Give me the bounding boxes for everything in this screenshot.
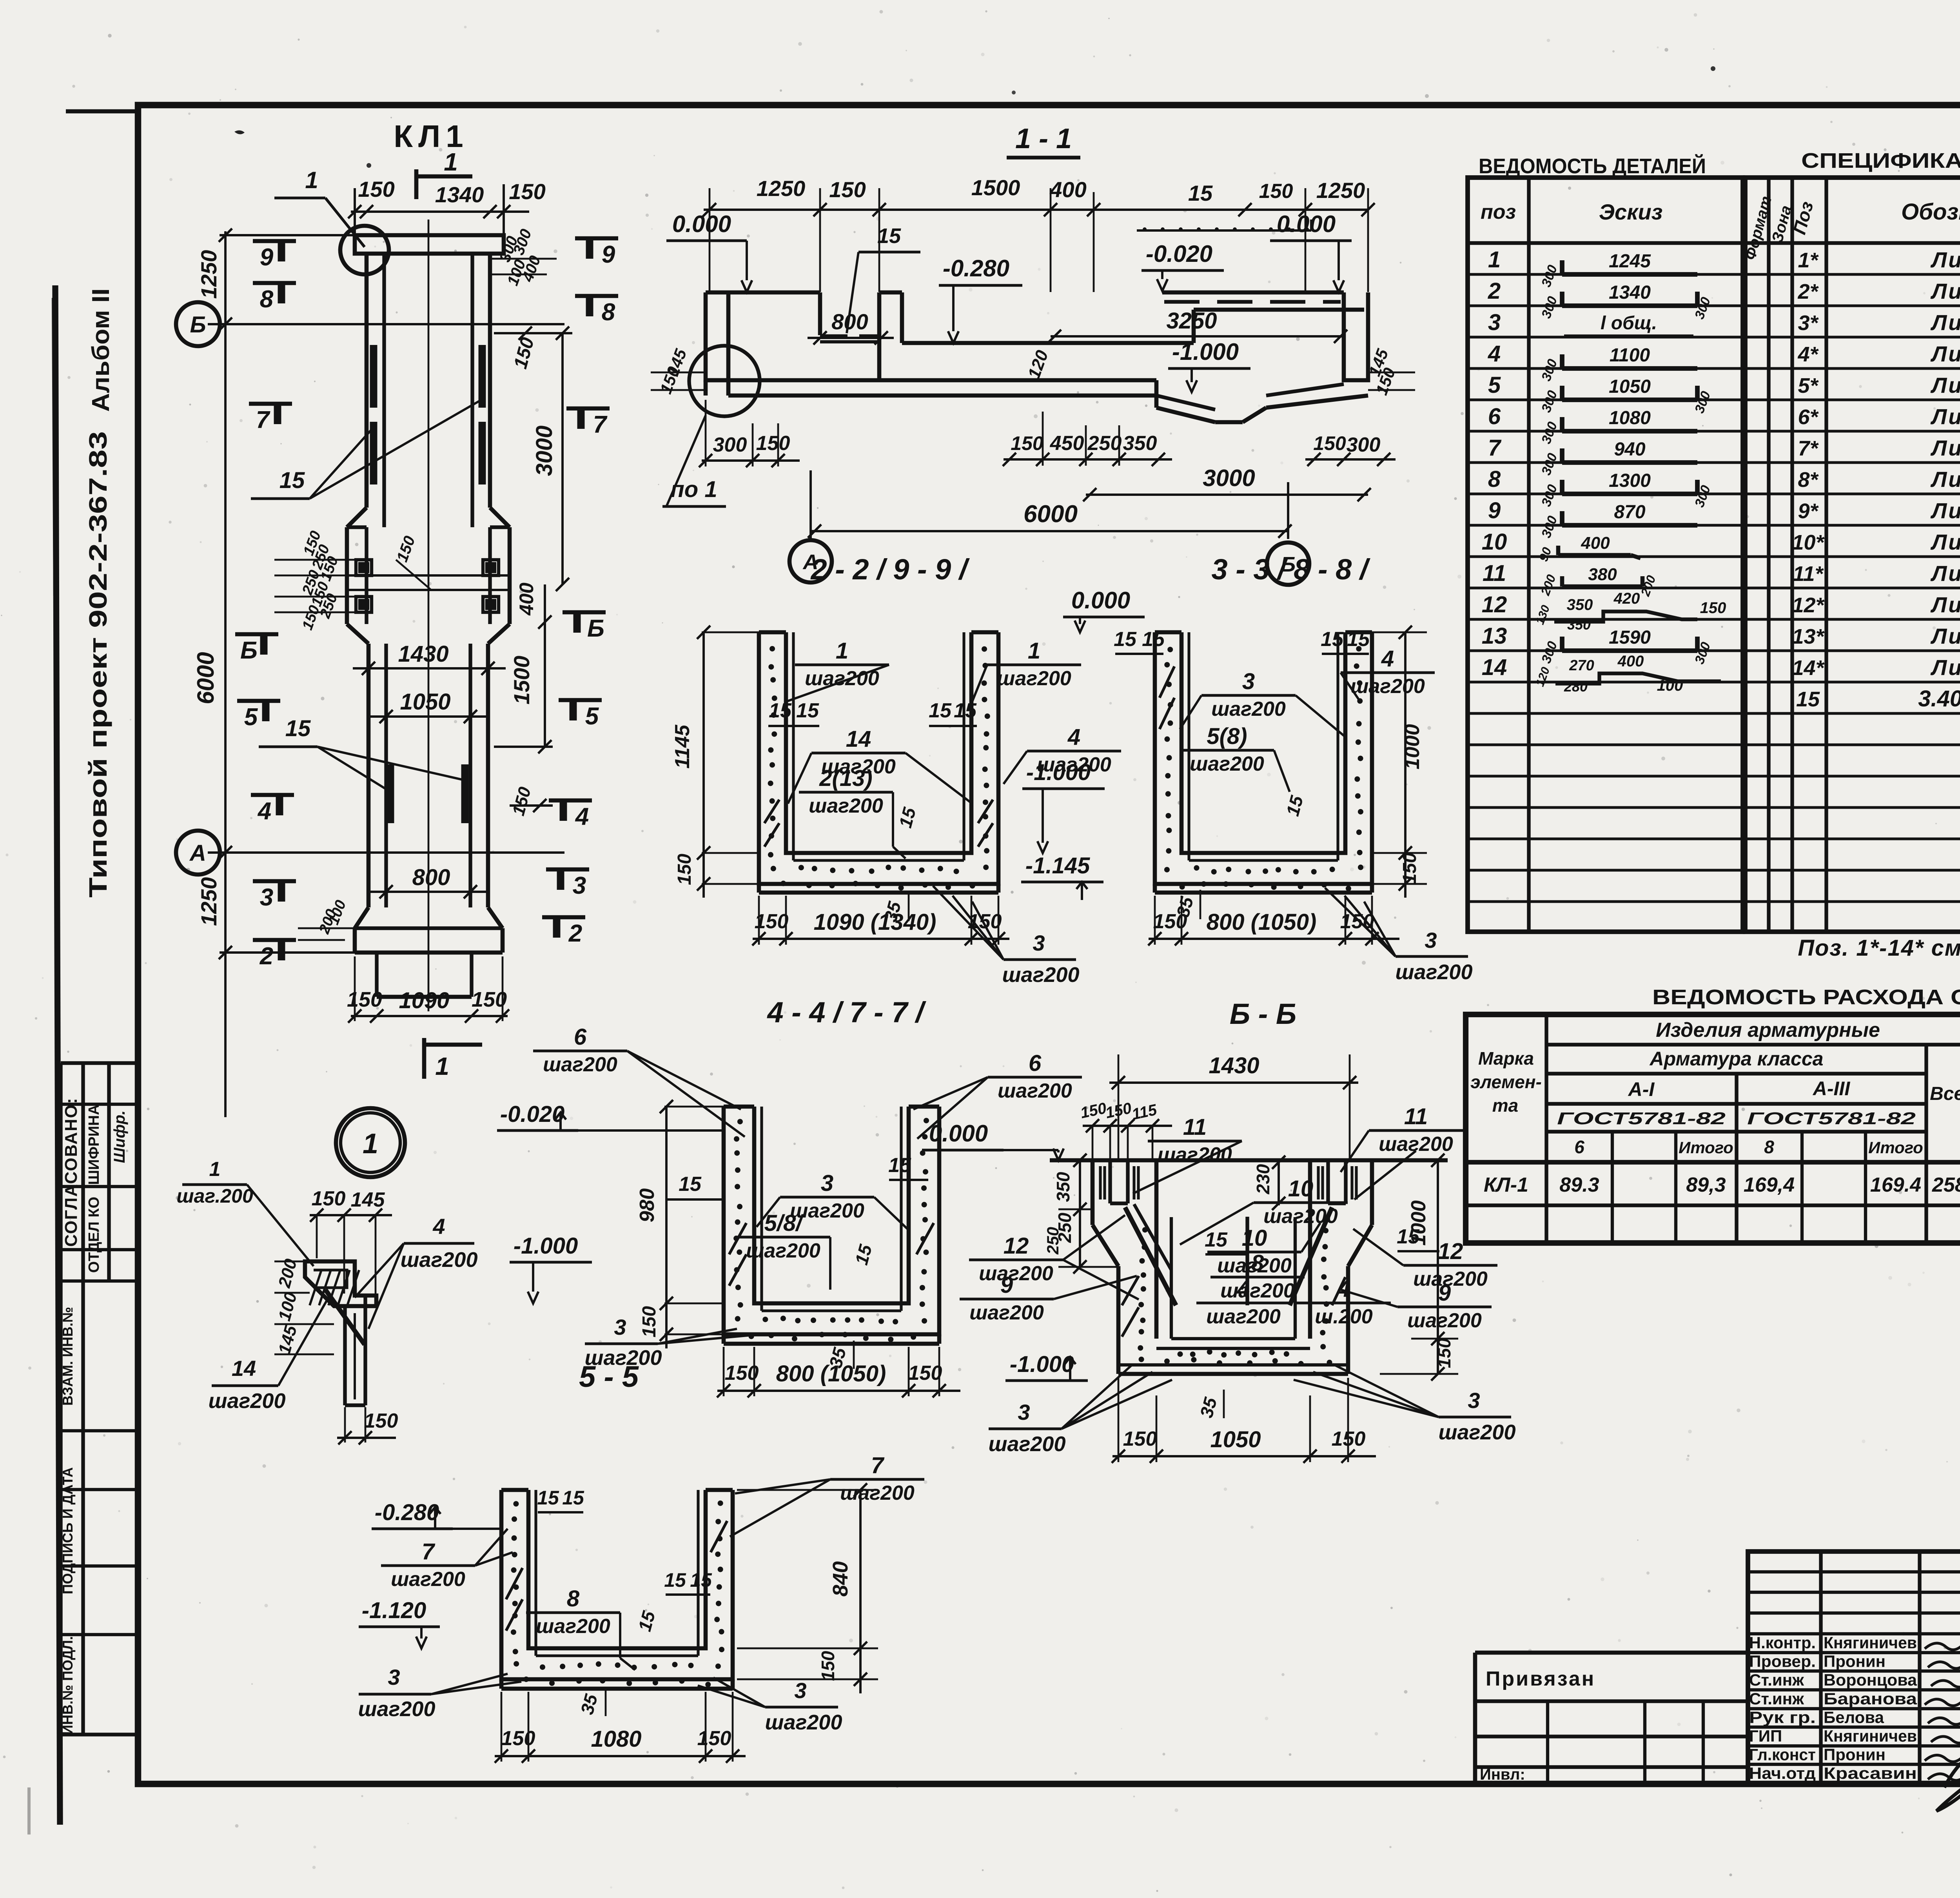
plan bottom section flag 1 <box>422 1038 426 1079</box>
svg-text:Баранова: Баранова <box>1824 1689 1917 1708</box>
plan wide box inner lines <box>347 574 510 577</box>
section 1-1 main outline <box>706 292 728 380</box>
svg-text:150: 150 <box>501 1727 535 1750</box>
svg-text:400: 400 <box>515 582 537 616</box>
section Б-Б vertical bar leg <box>1245 1217 1249 1305</box>
svg-text:1245: 1245 <box>1609 251 1651 272</box>
plan outline: bottom flange <box>355 907 368 928</box>
svg-text:Лист 4: Лист 4 <box>1930 435 1960 460</box>
svg-text:Княгиничев: Княгиничев <box>1824 1633 1917 1652</box>
svg-text:4 - 4 / 7 - 7 /: 4 - 4 / 7 - 7 / <box>767 996 927 1029</box>
svg-text:15: 15 <box>1114 628 1137 651</box>
svg-text:КЛ-1: КЛ-1 <box>1484 1174 1528 1196</box>
svg-text:150: 150 <box>697 1727 731 1750</box>
plan outline: upper neck walls <box>365 254 369 508</box>
svg-text:7*: 7* <box>1798 437 1819 460</box>
svg-text:169,4: 169,4 <box>1744 1174 1795 1196</box>
svg-text:1: 1 <box>209 1158 221 1181</box>
svg-text:169.4: 169.4 <box>1870 1174 1921 1196</box>
svg-text:13*: 13* <box>1792 625 1825 648</box>
svg-text:4*: 4* <box>1797 343 1819 366</box>
svg-text:940: 940 <box>1614 439 1645 460</box>
node detail hatch <box>310 1270 321 1305</box>
svg-text:3000: 3000 <box>532 425 557 476</box>
svg-text:15: 15 <box>877 224 901 248</box>
svg-text:3 - 3 / 8 - 8 /: 3 - 3 / 8 - 8 / <box>1212 553 1371 586</box>
svg-text:Арматура класса: Арматура класса <box>1649 1048 1824 1070</box>
svg-text:1050: 1050 <box>1609 376 1651 397</box>
plan embed squares <box>356 560 372 575</box>
svg-text:300: 300 <box>713 434 747 456</box>
svg-text:14*: 14* <box>1792 656 1825 680</box>
svg-text:СОГЛАСОВАНО:: СОГЛАСОВАНО: <box>62 1097 81 1247</box>
svg-text:Лист 4: Лист 4 <box>1930 279 1960 303</box>
left margin approval table <box>61 1061 138 1065</box>
svg-text:шаг200: шаг200 <box>1407 1309 1482 1332</box>
svg-text:15: 15 <box>796 699 819 722</box>
svg-text:4: 4 <box>1488 341 1501 367</box>
svg-text:9: 9 <box>1488 498 1501 523</box>
privyazan block <box>1475 1651 1748 1655</box>
svg-text:350: 350 <box>1567 617 1591 633</box>
svg-text:шаг200: шаг200 <box>1211 698 1286 720</box>
svg-text:2*: 2* <box>1797 280 1819 303</box>
svg-text:6: 6 <box>1574 1137 1584 1157</box>
section 4-4 outline <box>724 1107 939 1334</box>
svg-text:Белова: Белова <box>1824 1708 1884 1726</box>
section 5-5 hatch <box>506 1568 523 1599</box>
svg-text:1430: 1430 <box>1209 1053 1259 1078</box>
svg-text:5*: 5* <box>1798 374 1819 397</box>
svg-text:Обозначение: Обозначение <box>1901 199 1960 225</box>
svg-text:1590: 1590 <box>1609 627 1651 648</box>
section Б-Б bent bar diagonals <box>1125 1207 1176 1305</box>
svg-text:шаг200: шаг200 <box>1002 963 1080 987</box>
svg-text:Лист 4: Лист 4 <box>1930 655 1960 680</box>
svg-text:элемен-: элемен- <box>1470 1072 1542 1092</box>
svg-text:6: 6 <box>1029 1051 1042 1076</box>
svg-text:14: 14 <box>232 1356 256 1381</box>
svg-text:15: 15 <box>888 1154 911 1177</box>
svg-text:270: 270 <box>1569 657 1594 674</box>
svg-text:400: 400 <box>1049 177 1086 202</box>
svg-text:7: 7 <box>422 1539 436 1564</box>
svg-text:150: 150 <box>829 177 866 202</box>
svg-text:1430: 1430 <box>398 641 448 667</box>
svg-text:Всего: Всего <box>1930 1083 1960 1104</box>
plan axis line А <box>208 851 564 854</box>
svg-text:шаг200: шаг200 <box>1439 1421 1516 1444</box>
svg-text:150: 150 <box>674 854 695 885</box>
svg-text:Шифр.: Шифр. <box>111 1110 128 1163</box>
svg-text:l общ.: l общ. <box>1601 313 1657 334</box>
svg-text:0.000: 0.000 <box>1071 587 1130 613</box>
svg-text:2: 2 <box>568 920 582 947</box>
svg-text:3*: 3* <box>1798 311 1819 335</box>
svg-text:Воронцова: Воронцова <box>1824 1671 1917 1689</box>
svg-text:4: 4 <box>1381 646 1394 671</box>
scan smudges <box>234 130 245 134</box>
svg-text:ШИФРИНА: ШИФРИНА <box>86 1104 102 1185</box>
svg-text:Изделия арматурные: Изделия арматурные <box>1656 1019 1880 1042</box>
svg-text:Б: Б <box>587 615 604 642</box>
svg-text:7: 7 <box>593 411 608 438</box>
svg-text:Пронин: Пронин <box>1824 1652 1886 1671</box>
svg-text:Н.контр.: Н.контр. <box>1749 1633 1816 1652</box>
svg-text:150: 150 <box>639 1306 660 1337</box>
svg-text:1080: 1080 <box>1609 408 1651 428</box>
svg-text:6000: 6000 <box>192 652 219 704</box>
plan wall rebar strips upper <box>370 345 377 496</box>
svg-text:шаг200: шаг200 <box>997 667 1071 690</box>
svg-text:шаг200: шаг200 <box>1206 1305 1281 1328</box>
svg-text:250: 250 <box>1044 1227 1062 1255</box>
svg-text:-1.120: -1.120 <box>362 1598 426 1623</box>
svg-text:шаг200: шаг200 <box>746 1239 820 1262</box>
svg-text:Нач.отд: Нач.отд <box>1749 1764 1816 1782</box>
svg-text:5: 5 <box>244 704 258 731</box>
svg-text:3: 3 <box>614 1315 626 1339</box>
svg-text:ВЗАМ. ИНВ.№: ВЗАМ. ИНВ.№ <box>60 1307 76 1406</box>
svg-text:12: 12 <box>1438 1239 1463 1264</box>
svg-text:1250: 1250 <box>757 176 806 201</box>
svg-text:3.400- 6/76: 3.400- 6/76 <box>1918 686 1960 711</box>
section Б-Б outline <box>1050 1158 1448 1163</box>
svg-text:15: 15 <box>1796 688 1820 711</box>
svg-text:Лист 4: Лист 4 <box>1930 404 1960 429</box>
svg-text:350: 350 <box>1123 432 1157 455</box>
plan outline: wide box <box>345 527 349 624</box>
svg-text:Княгиничев: Княгиничев <box>1824 1727 1917 1745</box>
svg-text:14: 14 <box>1482 655 1507 680</box>
svg-text:8: 8 <box>567 1586 580 1611</box>
svg-text:15: 15 <box>1321 628 1344 651</box>
svg-text:1500: 1500 <box>509 656 534 705</box>
svg-text:10: 10 <box>1242 1225 1267 1251</box>
svg-text:ВЕДОМОСТЬ ДЕТАЛЕЙ: ВЕДОМОСТЬ ДЕТАЛЕЙ <box>1479 154 1706 178</box>
svg-text:Лист 4: Лист 4 <box>1930 247 1960 272</box>
svg-text:-1.000: -1.000 <box>1010 1352 1074 1377</box>
svg-text:Лист 4: Лист 4 <box>1930 624 1960 648</box>
plan section markers left column <box>253 239 296 243</box>
svg-text:2: 2 <box>1488 278 1501 304</box>
plan section flag 1 top <box>414 169 419 199</box>
svg-text:шаг200: шаг200 <box>989 1432 1066 1456</box>
svg-text:шаг200: шаг200 <box>543 1053 617 1076</box>
svg-text:поз: поз <box>1481 201 1516 223</box>
svg-text:15: 15 <box>1397 1225 1420 1248</box>
svg-text:89.3: 89.3 <box>1559 1174 1599 1196</box>
svg-text:6000: 6000 <box>1024 501 1078 528</box>
svg-text:-1.145: -1.145 <box>1025 853 1090 878</box>
svg-text:Б: Б <box>190 312 206 338</box>
svg-text:150: 150 <box>1313 432 1346 454</box>
svg-text:4: 4 <box>1237 1276 1250 1302</box>
svg-text:Типовой проект 902-2-367.83: Типовой проект 902-2-367.83 <box>84 431 112 898</box>
svg-text:1 - 1: 1 - 1 <box>1015 123 1072 154</box>
svg-text:3: 3 <box>1468 1388 1480 1413</box>
section 4-4 rebar dots <box>737 1119 743 1124</box>
axis circle Б plan <box>176 302 220 346</box>
svg-text:Лист 4: Лист 4 <box>1930 373 1960 397</box>
svg-text:2: 2 <box>260 943 273 970</box>
svg-text:11: 11 <box>1183 1114 1207 1140</box>
svg-text:Провер.: Провер. <box>1749 1652 1816 1671</box>
svg-text:5: 5 <box>585 703 599 730</box>
svg-text:6: 6 <box>1488 404 1501 429</box>
section 1-1 axis circles А Б <box>809 470 812 539</box>
svg-text:шаг.200: шаг.200 <box>176 1185 253 1207</box>
top-left margin horizontal line <box>66 109 136 114</box>
svg-text:4: 4 <box>257 798 271 825</box>
plan section markers right column <box>575 236 618 241</box>
svg-text:ВЕДОМОСТЬ РАСХОДА СТАЛИ НА: ВЕДОМОСТЬ РАСХОДА СТАЛИ НА ЭЛЕМЕНТ. <box>1652 985 1960 1009</box>
svg-text:ГИП: ГИП <box>1749 1727 1782 1745</box>
svg-text:89,3: 89,3 <box>1686 1174 1726 1196</box>
svg-text:15: 15 <box>769 699 792 722</box>
svg-text:Лист 4: Лист 4 <box>1930 498 1960 523</box>
svg-text:6: 6 <box>574 1024 587 1050</box>
svg-text:ПОДПИСЬ И ДАТА: ПОДПИСЬ И ДАТА <box>60 1467 76 1594</box>
svg-text:Ст.инж: Ст.инж <box>1749 1671 1804 1689</box>
svg-text:А: А <box>189 840 206 866</box>
svg-text:Итого: Итого <box>1679 1138 1733 1157</box>
svg-text:6*: 6* <box>1798 405 1819 429</box>
svg-text:шаг200: шаг200 <box>809 795 883 817</box>
section 1-1 label 15 bracket <box>1137 229 1311 232</box>
svg-text:15: 15 <box>285 716 311 741</box>
svg-text:280: 280 <box>1564 679 1588 695</box>
svg-text:Лист 4: Лист 4 <box>1930 341 1960 366</box>
section 5-5 outline <box>501 1490 733 1679</box>
plan axis line Б <box>208 323 564 325</box>
section Б-Б hatch <box>1122 1276 1139 1305</box>
svg-text:3: 3 <box>573 872 586 899</box>
svg-text:ГОСТ5781-82: ГОСТ5781-82 <box>1557 1109 1726 1128</box>
svg-text:Лист 4: Лист 4 <box>1930 467 1960 492</box>
svg-text:150: 150 <box>364 1410 398 1432</box>
svg-text:шаг200: шаг200 <box>1350 675 1425 698</box>
svg-text:5: 5 <box>1488 372 1501 398</box>
svg-text:11*: 11* <box>1793 562 1824 586</box>
svg-text:0.000: 0.000 <box>1277 211 1336 237</box>
title block signature table <box>1748 1551 1960 1783</box>
svg-text:15: 15 <box>954 699 977 722</box>
svg-text:150: 150 <box>1011 432 1044 454</box>
svg-text:230: 230 <box>1253 1164 1273 1194</box>
spec table grid <box>1745 178 1960 932</box>
svg-text:1: 1 <box>836 638 848 664</box>
section 3-3 rebar dots <box>1167 647 1173 652</box>
svg-text:12: 12 <box>1004 1233 1029 1259</box>
svg-text:3: 3 <box>1488 310 1501 335</box>
svg-text:шаг200: шаг200 <box>1396 960 1473 984</box>
svg-text:15: 15 <box>1188 181 1213 205</box>
svg-text:870: 870 <box>1614 502 1645 523</box>
svg-text:1: 1 <box>444 148 458 176</box>
svg-text:15: 15 <box>1347 628 1370 651</box>
svg-text:258.7: 258.7 <box>1932 1174 1960 1196</box>
svg-text:150: 150 <box>1434 1338 1454 1368</box>
svg-text:-1.000: -1.000 <box>1172 339 1239 365</box>
section 2-2 wall hatch marks <box>764 800 779 823</box>
svg-text:Лист 4: Лист 4 <box>1930 592 1960 617</box>
svg-text:1: 1 <box>305 167 318 193</box>
svg-text:шаг200: шаг200 <box>805 667 879 690</box>
detail circle 1 below plan <box>336 1108 405 1177</box>
svg-text:150: 150 <box>312 1187 346 1210</box>
svg-text:8*: 8* <box>1798 468 1819 492</box>
svg-text:15: 15 <box>537 1487 559 1509</box>
svg-text:800: 800 <box>412 865 450 890</box>
section 3-3 hatch <box>1160 666 1174 698</box>
svg-text:Б - Б: Б - Б <box>1230 998 1297 1030</box>
plan wall rebar strips lower <box>387 764 394 833</box>
svg-text:9: 9 <box>1438 1280 1451 1306</box>
svg-text:Красавин: Красавин <box>1824 1764 1917 1782</box>
svg-text:1: 1 <box>1488 247 1501 272</box>
svg-text:шаг200: шаг200 <box>401 1248 478 1272</box>
svg-text:1250: 1250 <box>1316 178 1365 203</box>
svg-text:980: 980 <box>636 1189 659 1223</box>
svg-text:14: 14 <box>846 726 871 752</box>
svg-text:150: 150 <box>472 988 507 1011</box>
svg-text:-1.000: -1.000 <box>1026 760 1091 785</box>
svg-text:1145: 1145 <box>671 724 694 769</box>
svg-text:Поз. 1*-14* см. таблицу ведо: Поз. 1*-14* см. таблицу ведомость детале… <box>1798 935 1960 961</box>
svg-text:шаг200: шаг200 <box>1220 1279 1295 1302</box>
svg-text:3: 3 <box>1242 669 1255 694</box>
svg-text:ИНВ.№ ПОДЛ.: ИНВ.№ ПОДЛ. <box>60 1636 76 1735</box>
section 5-5 rebar dots <box>513 1501 519 1506</box>
section 1-1 left detail circle <box>689 346 760 416</box>
plan outline: top flange <box>355 235 504 254</box>
svg-text:100: 100 <box>1657 677 1683 694</box>
plan centerline <box>428 220 430 1011</box>
svg-text:1300: 1300 <box>1609 470 1651 491</box>
svg-text:Итого: Итого <box>1868 1138 1923 1157</box>
svg-text:1100: 1100 <box>1610 345 1650 366</box>
svg-text:840: 840 <box>829 1561 852 1597</box>
plan outline: below flange stub <box>375 953 378 997</box>
svg-text:150: 150 <box>509 179 545 204</box>
svg-text:4: 4 <box>1067 724 1080 750</box>
svg-text:3: 3 <box>1425 928 1437 953</box>
svg-text:1500: 1500 <box>971 175 1020 200</box>
svg-text:-0.020: -0.020 <box>1146 241 1212 267</box>
svg-text:Марка: Марка <box>1478 1048 1534 1069</box>
svg-text:Лист 4: Лист 4 <box>1930 561 1960 586</box>
svg-text:15: 15 <box>562 1487 584 1509</box>
svg-text:1: 1 <box>435 1052 449 1080</box>
svg-text:15: 15 <box>1142 628 1165 651</box>
svg-text:250: 250 <box>1087 432 1122 455</box>
svg-text:шаг200: шаг200 <box>998 1080 1072 1102</box>
svg-text:-0.020: -0.020 <box>500 1101 564 1127</box>
section 2-2 outline <box>759 632 998 884</box>
svg-text:1340: 1340 <box>435 182 484 207</box>
svg-text:шаг200: шаг200 <box>969 1301 1044 1324</box>
svg-text:150: 150 <box>347 988 382 1011</box>
svg-text:15: 15 <box>1205 1228 1228 1251</box>
svg-text:450: 450 <box>1050 432 1084 455</box>
svg-text:9: 9 <box>602 241 615 268</box>
svg-text:Пронин: Пронин <box>1824 1746 1886 1764</box>
svg-text:150: 150 <box>1259 180 1293 203</box>
svg-text:4: 4 <box>575 803 589 830</box>
svg-text:13: 13 <box>1482 623 1507 649</box>
plan outline: widen chamfer <box>347 508 367 527</box>
svg-text:-0.280: -0.280 <box>943 255 1009 281</box>
steel table grid <box>1466 1014 1960 1243</box>
axis circle А plan <box>176 831 220 875</box>
svg-text:9*: 9* <box>1798 499 1819 523</box>
svg-text:800 (1050): 800 (1050) <box>1207 909 1317 935</box>
svg-text:8: 8 <box>1764 1137 1774 1157</box>
svg-text:150: 150 <box>1700 599 1726 617</box>
svg-text:8: 8 <box>260 286 274 313</box>
svg-text:шаг200: шаг200 <box>840 1482 915 1504</box>
svg-text:ш.200: ш.200 <box>1315 1305 1373 1328</box>
svg-text:1340: 1340 <box>1609 282 1651 303</box>
section 4-4 hatch <box>729 1223 746 1254</box>
svg-text:А-III: А-III <box>1812 1078 1851 1100</box>
svg-text:шаг200: шаг200 <box>391 1568 465 1591</box>
svg-text:0.000: 0.000 <box>929 1120 988 1147</box>
svg-text:11: 11 <box>1404 1104 1428 1129</box>
svg-text:9: 9 <box>1000 1272 1013 1298</box>
svg-text:ОТДЕЛ КО: ОТДЕЛ КО <box>86 1197 102 1273</box>
svg-text:1*: 1* <box>1798 249 1819 272</box>
svg-text:1090 (1340): 1090 (1340) <box>814 909 936 935</box>
svg-text:400: 400 <box>1581 533 1610 553</box>
svg-text:150: 150 <box>818 1651 838 1681</box>
svg-text:10: 10 <box>1288 1176 1314 1201</box>
svg-text:3: 3 <box>260 884 273 911</box>
svg-text:1050: 1050 <box>400 689 450 715</box>
svg-text:1090: 1090 <box>399 988 449 1013</box>
section Б-Б rebar dots <box>1142 1227 1148 1232</box>
plan left dim line 1250/6000/1250 <box>224 231 227 1117</box>
svg-text:5(8): 5(8) <box>1207 724 1247 749</box>
node detail lower wall <box>343 1306 347 1405</box>
svg-text:А-I: А-I <box>1628 1078 1655 1100</box>
svg-text:шаг200: шаг200 <box>979 1262 1053 1285</box>
node detail outline <box>305 1261 376 1306</box>
svg-text:4: 4 <box>432 1214 445 1239</box>
svg-text:-1.000: -1.000 <box>514 1233 578 1259</box>
svg-text:15: 15 <box>679 1173 702 1196</box>
svg-text:Рук гр.: Рук гр. <box>1749 1708 1816 1726</box>
svg-text:7: 7 <box>1488 435 1502 461</box>
svg-text:5 - 5: 5 - 5 <box>579 1360 639 1394</box>
vedomost detaley table grid <box>1468 178 1743 932</box>
svg-text:Альбом II: Альбом II <box>87 289 114 412</box>
plan right dim lines <box>561 333 564 584</box>
svg-text:150: 150 <box>908 1362 942 1384</box>
eskiz sketches column <box>1562 272 1697 277</box>
svg-text:Инвл:: Инвл: <box>1480 1766 1525 1783</box>
svg-text:8: 8 <box>1251 1250 1264 1276</box>
svg-text:1: 1 <box>363 1128 378 1159</box>
svg-text:9: 9 <box>260 244 274 271</box>
svg-text:150: 150 <box>756 432 790 455</box>
svg-text:12: 12 <box>1482 592 1507 617</box>
svg-text:1050: 1050 <box>1210 1427 1261 1452</box>
svg-text:150: 150 <box>358 177 394 201</box>
svg-text:2 - 2 / 9 - 9 /: 2 - 2 / 9 - 9 / <box>810 553 970 586</box>
svg-text:3: 3 <box>1033 931 1045 955</box>
